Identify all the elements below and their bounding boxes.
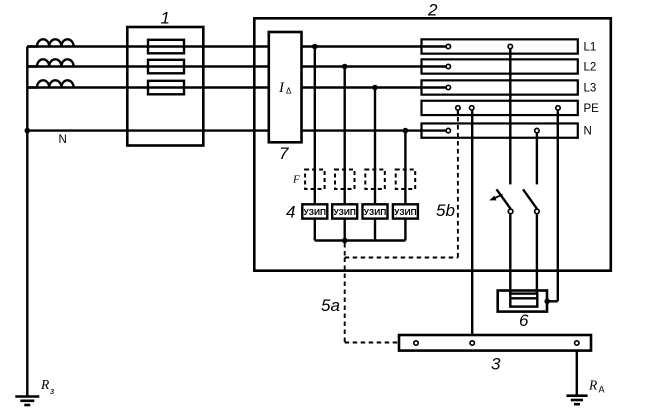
wire L2 phase conductor [27,65,445,67]
wire L1 stub into busbar [420,45,446,47]
svg-text:L3: L3 [584,83,597,95]
wire SPD outputs to common point [315,219,406,241]
terminal circle earth bar a [414,341,418,345]
node tap L1 junction [312,44,318,50]
terminal circle PE-c [556,106,560,110]
svg-text:R: R [588,378,598,393]
SPD box 3 [363,204,388,218]
terminal circle L1-b [508,44,512,48]
box 1 main protection device [127,27,203,146]
residual current device box I-delta [269,32,302,142]
wire N neutral conductor [27,129,445,131]
terminal circle earth bar c [575,341,579,345]
wire PE busbar to earth bar [471,108,473,340]
svg-text:N: N [59,134,67,146]
svg-text:5b: 5b [436,201,455,220]
fuse F1-2 [148,60,184,74]
svg-text:Δ: Δ [286,87,292,96]
svg-text:1: 1 [161,9,170,28]
svg-text:L2: L2 [584,62,597,74]
wire switch S2 to load [536,214,538,294]
wire transformer star point to N and earth [26,47,28,397]
wire L3 phase conductor [27,86,445,88]
wire tap L2 to SPD 2 [344,67,346,205]
busbar PE [422,101,578,115]
svg-text:УЗИП: УЗИП [394,207,417,217]
svg-text:L1: L1 [584,42,597,54]
svg-text:з: з [49,386,54,396]
terminal circle L1-a [446,44,450,48]
node tap N junction [403,128,409,134]
wire L1 phase conductor [27,45,445,47]
svg-text:N: N [584,126,592,138]
terminal circle earth bar b [470,341,474,345]
terminal circle L3 [446,85,450,89]
wire 5a dashed SPD common to earth bar [345,258,413,343]
switch S1 contact circle [508,209,513,214]
busbar N [422,123,578,137]
ground symbol RA [567,396,588,405]
wire PE busbar down to load [547,108,558,301]
svg-text:A: A [599,385,605,395]
svg-text:3: 3 [491,355,501,374]
switch S2 blade [523,189,537,209]
svg-text:6: 6 [519,311,529,330]
busbar L2 [422,59,578,73]
svg-text:УЗИП: УЗИП [333,207,356,217]
svg-text:PE: PE [584,103,600,115]
SPD box 2 [332,204,357,218]
terminal circle L2 [446,64,450,68]
node SPD common junction [342,238,348,244]
box 2 switchgear assembly outline [254,18,611,270]
wire N busbar to switch S2 [536,131,538,185]
svg-text:УЗИП: УЗИП [364,207,387,217]
node tap L2 junction [342,64,348,70]
svg-text:7: 7 [279,144,289,163]
switch S1 actuator arrow [489,195,502,201]
fuse link F dashed box 4 [396,170,416,190]
svg-text:2: 2 [427,1,438,20]
switch S1 blade [497,189,511,209]
switch S2 contact circle [535,209,540,214]
fuse link F dashed box 2 [335,170,355,190]
fuse F1-3 [148,81,184,95]
svg-text:I: I [278,80,285,96]
terminal circle N-b [535,128,539,132]
svg-text:5a: 5a [321,296,340,315]
wire tap L3 to SPD 3 [374,88,376,205]
load heating element [510,294,537,307]
node load PE junction [544,299,550,305]
terminal circle N-a [446,128,450,132]
transformer winding W2 [27,59,73,66]
wire earth bar to earth electrode RA [576,351,578,396]
node N junction [25,128,31,134]
fuse link F dashed box 1 [305,170,325,190]
terminal circle PE-b [470,106,474,110]
label RA [588,378,605,395]
fuse F1-1 [148,40,184,54]
wire switch S1 to load [509,214,511,294]
terminal circle PE-a [456,106,460,110]
wire L2 stub into busbar [420,65,446,67]
SPD box 1 [302,204,327,218]
wire 5b dashed SPD common to PE busbar [345,109,458,258]
busbar L3 [422,80,578,94]
svg-text:R: R [40,377,50,392]
node tap L3 junction [372,85,378,91]
wire N stub into busbar [420,129,446,131]
ground symbol Rg [15,397,39,406]
earthing busbar 3 [399,335,591,351]
wire L1 busbar to switch S1 [509,47,511,185]
label Rg [40,377,54,396]
svg-text:F: F [292,174,300,186]
wire tap N to SPD 4 [404,131,406,205]
fuse link F dashed box 3 [365,170,385,190]
svg-text:УЗИП: УЗИП [304,207,327,217]
transformer winding W1 [27,39,73,46]
SPD box 4 [393,204,418,218]
transformer winding W3 [27,80,73,87]
busbar L1 [422,39,578,53]
box 6 load appliance [498,291,547,312]
wire tap L1 to SPD 1 [314,47,316,205]
wire L3 stub into busbar [420,86,446,88]
svg-text:4: 4 [286,203,295,222]
